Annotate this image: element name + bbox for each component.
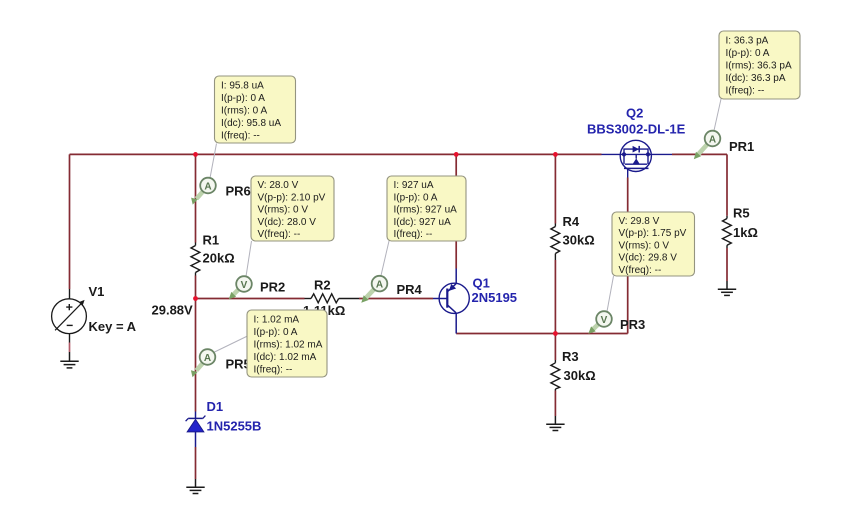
resistor R2 xyxy=(305,294,360,303)
wire V1 top drop xyxy=(69,154,71,289)
wire R2 to Q1 base xyxy=(359,298,433,300)
ground below V1 xyxy=(60,352,78,368)
wire bottom rail Q1 collector to Q2 gate xyxy=(456,333,628,335)
probe leader line PR6 xyxy=(210,144,217,179)
wire R1 branch lower xyxy=(195,276,197,299)
svg-text:A: A xyxy=(376,279,383,290)
svg-text:I: 927 uA: I: 927 uA xyxy=(394,180,434,191)
svg-text:I: 95.8 uA: I: 95.8 uA xyxy=(221,81,264,92)
svg-text:Q2: Q2 xyxy=(626,106,643,121)
probe leader line PR5 xyxy=(214,336,248,353)
probe readout box PR3 xyxy=(612,212,695,276)
svg-text:V(dc): 28.0 V: V(dc): 28.0 V xyxy=(258,217,317,228)
wire Q1 emitter drop xyxy=(455,154,457,268)
svg-text:V: V xyxy=(601,315,608,326)
svg-text:I(p-p): 0 A: I(p-p): 0 A xyxy=(254,327,298,338)
wire R1 branch upper xyxy=(195,154,197,242)
wire R5 to ground xyxy=(726,248,728,281)
wire V1 to ground stub xyxy=(69,343,71,353)
svg-text:A: A xyxy=(204,353,211,364)
svg-text:I(p-p): 0 A: I(p-p): 0 A xyxy=(726,48,770,59)
svg-text:I(rms): 36.3 pA: I(rms): 36.3 pA xyxy=(726,61,792,72)
svg-text:A: A xyxy=(204,181,211,192)
MOSFET Q2 BBS3002-DL-1E xyxy=(602,140,673,177)
probe PR4 current arrow xyxy=(365,289,374,298)
svg-text:2N5195: 2N5195 xyxy=(472,290,518,305)
svg-text:I(p-p): 0 A: I(p-p): 0 A xyxy=(394,192,438,203)
wire D1 branch upper xyxy=(195,299,197,412)
svg-text:I: 36.3 pA: I: 36.3 pA xyxy=(726,36,769,47)
wire R4 branch upper xyxy=(554,154,556,223)
svg-text:R4: R4 xyxy=(563,214,580,229)
resistor R4 30k xyxy=(551,224,560,261)
junction node R3 R4 bottom rail xyxy=(553,331,558,336)
svg-text:I(dc): 95.8 uA: I(dc): 95.8 uA xyxy=(221,118,281,129)
svg-text:R3: R3 xyxy=(562,349,579,364)
junction node at R1 top rail xyxy=(193,152,198,157)
wire R3 upper xyxy=(554,334,556,361)
svg-text:30kΩ: 30kΩ xyxy=(563,233,595,248)
resistor R5 1k xyxy=(723,216,732,248)
junction node at R4 rail xyxy=(553,152,558,157)
svg-text:V(p-p): 2.10 pV: V(p-p): 2.10 pV xyxy=(258,192,326,203)
wire D1 to ground xyxy=(195,447,197,479)
probe PR3 voltage arrow xyxy=(593,324,599,330)
probe leader line PR4 xyxy=(381,241,389,276)
svg-text:I(freq): --: I(freq): -- xyxy=(254,365,293,376)
wire top rail right segment to R5 corner xyxy=(672,153,727,155)
probe leader line PR2 xyxy=(246,241,252,277)
svg-text:R1: R1 xyxy=(203,233,220,248)
probe readout box PR1 xyxy=(719,31,800,99)
resistor R3 30k xyxy=(551,360,560,391)
ground below R3 xyxy=(546,416,564,431)
probe readout box PR4 xyxy=(387,176,466,241)
zener diode D1 1N5255B xyxy=(186,412,206,448)
svg-text:V(freq): --: V(freq): -- xyxy=(258,229,301,240)
probe readout box PR5 xyxy=(247,310,327,377)
svg-text:V(rms): 0 V: V(rms): 0 V xyxy=(619,240,670,251)
probe leader line PR1 xyxy=(714,99,721,131)
svg-text:29.88V: 29.88V xyxy=(152,303,194,318)
wire R5 drop xyxy=(726,154,728,215)
svg-text:R5: R5 xyxy=(733,206,750,221)
svg-text:I(rms): 0 A: I(rms): 0 A xyxy=(221,106,267,117)
wire node 29.88V horizontal to R2 xyxy=(196,298,305,300)
probe PR5 ammeter circle xyxy=(200,349,216,365)
probe readout box PR2 xyxy=(251,176,334,241)
svg-text:PR1: PR1 xyxy=(729,139,754,154)
probe PR1 ammeter circle xyxy=(705,131,721,147)
svg-text:PR3: PR3 xyxy=(620,317,645,332)
probe PR4 ammeter circle xyxy=(372,276,388,292)
svg-text:1kΩ: 1kΩ xyxy=(733,225,758,240)
probe PR2 voltage arrow xyxy=(233,289,239,295)
wire Q2 gate drop xyxy=(627,178,629,334)
resistor R1 20k xyxy=(191,243,200,276)
svg-text:BBS3002-DL-1E: BBS3002-DL-1E xyxy=(587,122,686,137)
svg-text:30kΩ: 30kΩ xyxy=(564,368,596,383)
svg-text:I(dc): 1.02 mA: I(dc): 1.02 mA xyxy=(254,352,317,363)
junction node 29.88V xyxy=(193,296,198,301)
wire R3 to ground xyxy=(554,391,556,417)
probe PR6 current arrow xyxy=(197,191,204,199)
svg-text:I(dc): 927 uA: I(dc): 927 uA xyxy=(394,217,452,228)
probe PR3 voltmeter circle xyxy=(596,311,612,327)
svg-text:I: 1.02 mA: I: 1.02 mA xyxy=(254,315,300,326)
voltage source V1 xyxy=(52,289,87,343)
svg-text:I(p-p): 0 A: I(p-p): 0 A xyxy=(221,93,265,104)
junction node at Q1 emitter rail xyxy=(454,152,459,157)
transistor Q1 2N5195 PNP xyxy=(433,269,469,334)
wire top rail horizontal xyxy=(70,153,602,155)
svg-text:I(rms): 1.02 mA: I(rms): 1.02 mA xyxy=(254,340,323,351)
svg-text:V(p-p): 1.75 pV: V(p-p): 1.75 pV xyxy=(619,228,687,239)
svg-text:Key = A: Key = A xyxy=(89,319,137,334)
svg-text:V: 29.8 V: V: 29.8 V xyxy=(619,216,660,227)
ground below R5 xyxy=(718,281,736,295)
svg-text:I(rms): 927 uA: I(rms): 927 uA xyxy=(394,205,458,216)
svg-text:V: V xyxy=(241,280,248,291)
svg-text:R2: R2 xyxy=(314,278,331,293)
svg-text:V(freq): --: V(freq): -- xyxy=(619,265,662,276)
probe PR1 current arrow xyxy=(698,144,708,155)
svg-text:V1: V1 xyxy=(89,284,105,299)
svg-text:1N5255B: 1N5255B xyxy=(207,419,262,434)
probe PR2 voltmeter circle xyxy=(236,276,252,292)
probe leader line PR3 xyxy=(607,276,614,312)
probe PR5 current arrow xyxy=(196,363,203,371)
wire R4 branch lower xyxy=(554,260,556,334)
svg-text:V: 28.0 V: V: 28.0 V xyxy=(258,180,299,191)
svg-text:PR4: PR4 xyxy=(397,282,423,297)
svg-text:I(dc): 36.3 pA: I(dc): 36.3 pA xyxy=(726,73,786,84)
svg-text:PR6: PR6 xyxy=(226,184,251,199)
svg-text:D1: D1 xyxy=(207,399,224,414)
svg-text:I(freq): --: I(freq): -- xyxy=(726,86,765,97)
svg-text:PR2: PR2 xyxy=(260,280,285,295)
probe readout box PR6 xyxy=(215,76,296,143)
probe PR6 ammeter circle xyxy=(200,178,216,194)
svg-text:A: A xyxy=(709,134,716,145)
svg-text:I(freq): --: I(freq): -- xyxy=(221,131,260,142)
ground below D1 xyxy=(186,479,204,494)
svg-text:Q1: Q1 xyxy=(473,276,490,291)
svg-text:I(freq): --: I(freq): -- xyxy=(394,229,433,240)
svg-text:V(dc): 29.8 V: V(dc): 29.8 V xyxy=(619,253,678,264)
svg-text:V(rms): 0 V: V(rms): 0 V xyxy=(258,205,309,216)
svg-text:20kΩ: 20kΩ xyxy=(203,251,235,266)
